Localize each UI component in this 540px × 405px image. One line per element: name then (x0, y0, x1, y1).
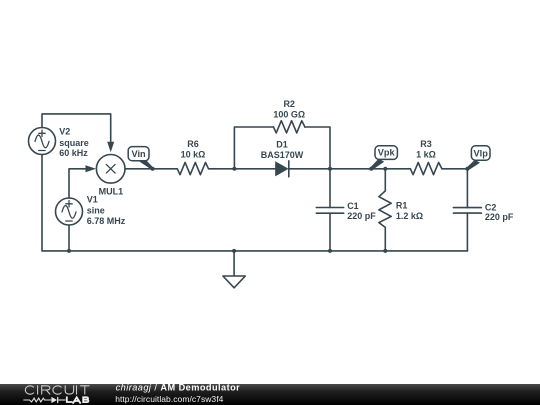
svg-text:D1: D1 (276, 140, 288, 150)
wire V2 bottom lead down left side (41, 155, 43, 251)
flag tail Vlp (466, 160, 480, 171)
junction dot C1 bottom (328, 249, 332, 253)
wire bottom ground rail (42, 250, 467, 252)
svg-text:10 kΩ: 10 kΩ (181, 149, 206, 159)
junction dot V1 bottom (67, 249, 71, 253)
node flag Vpk box (375, 146, 397, 160)
svg-text:R6: R6 (187, 139, 199, 149)
junction dot Vin node (151, 167, 155, 171)
ground symbol (223, 251, 245, 288)
svg-text:60 kHz: 60 kHz (59, 148, 88, 158)
wire R3 to Vlp corner (442, 168, 468, 170)
svg-text:Vlp: Vlp (474, 148, 489, 158)
logo LAB letters (67, 397, 89, 403)
wire C2 bottom lead to ground rail (466, 213, 468, 251)
svg-text:1 kΩ: 1 kΩ (416, 149, 436, 159)
svg-text:R3: R3 (420, 139, 432, 149)
node flag Vlp box (471, 146, 490, 160)
svg-text:R2: R2 (283, 99, 295, 109)
wire D1 cathode to C1/R2 junction (289, 168, 330, 170)
svg-text:220 pF: 220 pF (347, 211, 376, 221)
wire V1 top lead to MUL1 input (69, 169, 88, 198)
wire C2 top lead from Vlp corner (466, 169, 468, 208)
svg-text:Vin: Vin (132, 149, 147, 159)
junction dot R1 top (383, 167, 387, 171)
logo waveform resistor (23, 398, 65, 402)
svg-text:R1: R1 (396, 201, 408, 211)
svg-text:V1: V1 (87, 195, 98, 205)
svg-text:100 GΩ: 100 GΩ (273, 109, 305, 119)
svg-text:V2: V2 (59, 126, 70, 136)
svg-text:1.2 kΩ: 1.2 kΩ (396, 211, 423, 221)
wire C1 top lead (329, 169, 331, 208)
svg-text:220 pF: 220 pF (485, 212, 514, 222)
resistor R3 (410, 162, 442, 174)
resistor R1 (vertical) (379, 191, 391, 228)
flag tail Vpk (370, 159, 384, 170)
svg-text:sine: sine (87, 205, 105, 215)
wire R6 to D1 anode (209, 168, 276, 170)
flag tail Vin (138, 157, 154, 170)
svg-text:Vpk: Vpk (378, 148, 396, 158)
resistor R2 (274, 121, 305, 133)
junction dot Vpk node (369, 167, 373, 171)
wire R2 branch right vertical down (305, 127, 330, 169)
diode D1 cathode bar (288, 161, 290, 177)
junction dot Vlp node (465, 167, 469, 171)
multiplier MUL1 (96, 155, 125, 184)
wire MUL1 output to R6 (125, 168, 177, 170)
junction dot R2 left (232, 167, 236, 171)
svg-text:C1: C1 (347, 201, 359, 211)
voltage source V2 circle (29, 128, 56, 155)
svg-text:6.78 MHz: 6.78 MHz (87, 216, 126, 226)
wire R1 top lead (384, 169, 386, 191)
junction dot R2 right / C1 (328, 167, 332, 171)
logo CIRCUIT outlined letters (25, 386, 89, 394)
junction dot R1 bottom (383, 249, 387, 253)
svg-text:chiraagj / AM Demodulator: chiraagj / AM Demodulator (116, 383, 241, 393)
wire V1 bottom lead (68, 225, 70, 251)
svg-text:http://circuitlab.com/c7sw3f4: http://circuitlab.com/c7sw3f4 (115, 394, 223, 404)
wire top rail from V2 to MUL1 column (42, 114, 111, 144)
svg-text:BAS170W: BAS170W (261, 150, 304, 160)
wire C1 bottom lead (329, 213, 331, 251)
footer bar (0, 383, 540, 405)
svg-text:square: square (59, 138, 89, 148)
arrowhead into MUL1 left (86, 165, 97, 172)
capacitor C1 plates (316, 208, 343, 214)
wire R2 branch left vertical up (234, 127, 273, 169)
svg-text:MUL1: MUL1 (99, 186, 124, 196)
svg-text:C2: C2 (485, 202, 497, 212)
arrowhead into MUL1 top (107, 142, 114, 153)
wire C1/R2 junction to R3 (330, 168, 410, 170)
node flag Vin box (128, 147, 149, 161)
diode D1 body (275, 161, 288, 176)
wire R1 bottom lead (384, 227, 386, 251)
resistor R6 (177, 162, 208, 174)
capacitor C2 plates (453, 208, 481, 214)
junction dot ground (232, 249, 236, 253)
logo diode glyph (51, 397, 58, 403)
voltage source V1 circle (56, 198, 83, 225)
